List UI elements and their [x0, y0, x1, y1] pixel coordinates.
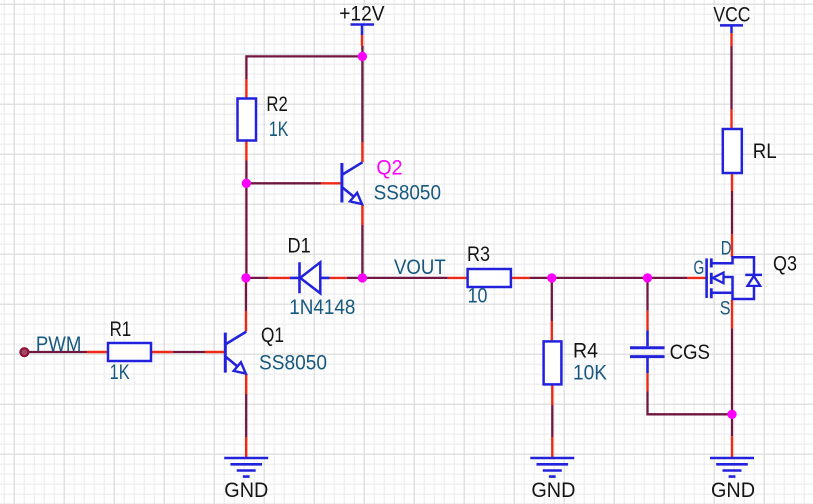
- svg-text:S: S: [720, 298, 731, 319]
- resistor R4: [544, 341, 562, 384]
- wire D1 anode to VOUT node: [347, 277, 363, 279]
- capacitor CGS: [630, 330, 665, 373]
- svg-text:D: D: [721, 238, 732, 259]
- svg-text:10K: 10K: [573, 362, 607, 385]
- svg-text:1N4148: 1N4148: [289, 296, 355, 319]
- svg-text:RL: RL: [753, 140, 777, 163]
- resistor RL: [723, 129, 742, 173]
- wire VCC to RL: [730, 46, 732, 109]
- wire RL to Q3 drain: [731, 191, 733, 234]
- junction node E: [643, 273, 652, 282]
- resistor R2: [238, 99, 257, 141]
- wire R2 bottom to node B: [245, 161, 247, 184]
- svg-text:1K: 1K: [110, 361, 130, 384]
- wire R4 to GND: [551, 405, 553, 437]
- wire PWM input to R1: [27, 351, 87, 353]
- wire Q2 collector to +12V node: [361, 56, 363, 142]
- junction node D: [547, 273, 556, 282]
- terminal PWM: [20, 348, 28, 356]
- power symbol VCC: [720, 25, 743, 33]
- junction node C: [241, 273, 250, 282]
- wire R1 to Q1 base: [173, 351, 205, 353]
- diode D1 1N4148: [290, 262, 330, 293]
- resistor R3: [468, 269, 511, 287]
- pin Q2 collector: [361, 142, 363, 162]
- svg-text:SS8050: SS8050: [374, 181, 441, 204]
- pin Q3 source: [731, 300, 733, 329]
- ground GND3: [710, 458, 754, 477]
- svg-text:R1: R1: [110, 318, 132, 341]
- pin RL bottom: [731, 173, 733, 191]
- wire source node to GND: [731, 414, 733, 436]
- pin +12V power: [361, 35, 363, 46]
- wire node D to R4: [551, 278, 553, 321]
- pin D1 cathode: [268, 277, 290, 279]
- pin Q2 emitter: [361, 205, 363, 226]
- pin CGS top: [646, 311, 648, 331]
- svg-text:Q1: Q1: [261, 324, 284, 347]
- svg-text:GND: GND: [711, 479, 755, 502]
- wire CGS bottom to source node: [648, 392, 733, 415]
- svg-text:GND: GND: [224, 479, 268, 502]
- svg-text:VCC: VCC: [713, 4, 750, 27]
- pin R2 top: [245, 79, 247, 99]
- svg-text:Q2: Q2: [376, 157, 402, 180]
- pin Q1 emitter: [245, 374, 247, 394]
- pin R2 bottom: [245, 141, 247, 161]
- wire Q1 emitter to GND: [245, 394, 247, 437]
- svg-text:PWM: PWM: [36, 333, 82, 356]
- svg-text:R2: R2: [266, 93, 287, 116]
- wire node C to D1 cathode: [246, 277, 268, 279]
- wire node B to node C: [245, 183, 247, 278]
- junction node VOUT: [358, 273, 367, 282]
- wire R3 to node D: [530, 277, 552, 279]
- svg-text:Q3: Q3: [773, 253, 797, 276]
- svg-text:SS8050: SS8050: [259, 352, 327, 375]
- pin VCC power: [730, 33, 732, 46]
- svg-text:+12V: +12V: [339, 3, 384, 26]
- pin GND1: [245, 437, 247, 458]
- svg-text:R4: R4: [573, 340, 598, 363]
- ground GND1: [224, 458, 268, 477]
- pin Q1 collector: [245, 311, 247, 331]
- pin R1 right: [151, 351, 173, 353]
- wire Q3 source to source node: [731, 329, 733, 415]
- pin Q3 drain: [731, 234, 733, 257]
- pin CGS bottom: [646, 373, 648, 391]
- wire node B to Q2 base: [246, 182, 321, 184]
- pin R4 top: [551, 321, 553, 341]
- svg-text:G: G: [694, 258, 705, 279]
- svg-text:10: 10: [468, 285, 488, 308]
- wire Q2 emitter to VOUT node: [361, 225, 363, 278]
- svg-text:VOUT: VOUT: [394, 256, 446, 279]
- svg-text:1K: 1K: [269, 118, 288, 141]
- pin Q2 base: [321, 182, 341, 184]
- wire node D to node E: [552, 277, 648, 279]
- wire Q1 collector to node C: [245, 278, 247, 311]
- svg-text:D1: D1: [288, 235, 311, 258]
- pin Q1 base: [205, 351, 224, 353]
- wire node E to Q3 gate: [648, 277, 688, 279]
- junction node +12V rail: [358, 52, 367, 61]
- svg-text:CGS: CGS: [670, 341, 710, 364]
- transistor Q2 SS8050: [342, 162, 363, 204]
- pin RL top: [730, 109, 732, 129]
- junction node B: [242, 179, 251, 188]
- svg-text:R3: R3: [467, 243, 490, 266]
- power symbol +12V: [351, 25, 375, 36]
- svg-text:GND: GND: [531, 479, 575, 502]
- mosfet Q3: [707, 257, 762, 299]
- pin R3 left: [448, 277, 468, 279]
- pin GND3: [731, 436, 733, 457]
- pin R1 left: [87, 351, 108, 353]
- wire +12V rail top: [246, 46, 362, 79]
- pin D1 anode: [330, 277, 347, 279]
- pin R3 right: [511, 277, 530, 279]
- wire node E to CGS top: [646, 278, 648, 311]
- junction node source: [727, 410, 736, 419]
- ground GND2: [530, 458, 574, 477]
- wire VOUT node to R3: [362, 277, 447, 279]
- transistor Q1 SS8050: [225, 332, 246, 374]
- pin Q3 gate: [687, 277, 708, 279]
- resistor R1: [108, 343, 151, 361]
- pin R4 bottom: [551, 384, 553, 405]
- pin GND2: [551, 437, 553, 458]
